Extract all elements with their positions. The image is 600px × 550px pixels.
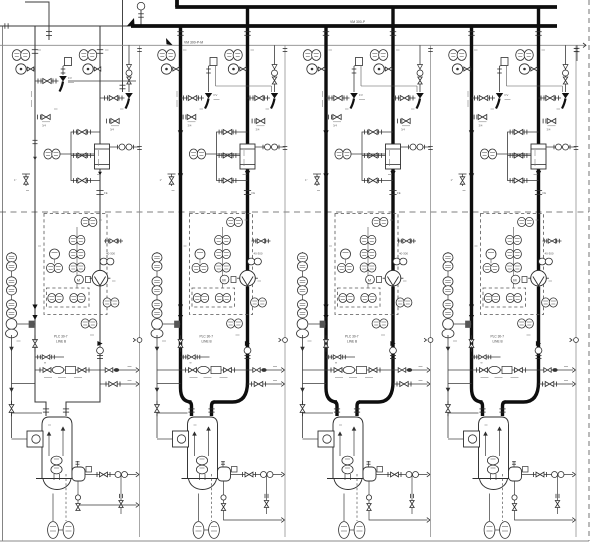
wire pot drain unit 3 — [369, 481, 428, 520]
orifice flanges FE-31 — [389, 190, 396, 192]
svg-text:PLC 30-7: PLC 30-7 — [200, 335, 214, 339]
instrument PI-202 gauge — [228, 64, 238, 74]
flow arrow on discharge riser below cooler unit 4 — [536, 171, 541, 176]
arrow on balance line at boundary unit 2 — [281, 368, 284, 373]
wire pump 4 suction riser (left main) x=472 — [472, 26, 483, 402]
dashed control panel box unit 2 — [190, 214, 253, 315]
wire TI-411 to cooler — [497, 153, 532, 155]
instrument LT-3C stack — [298, 300, 308, 309]
pipe spec label beside discharge riser unit 4 — [534, 150, 536, 156]
instrument LG-2 gauge — [152, 319, 163, 330]
flow element FE-12 (venturi) on discharge riser — [92, 270, 108, 286]
arrow on pot drain unit 1 — [136, 503, 139, 508]
check valve on discharge riser bottom unit 4 — [536, 341, 541, 346]
pipe spec label beside suction riser unit 3 — [322, 91, 324, 97]
instrument PI-202 dual tag — [225, 50, 234, 61]
instrument YL-2 dual tag below box — [227, 319, 235, 328]
flow arrow on discharge riser below cooler unit 3 — [390, 171, 395, 176]
pump impeller stages unit 4 — [487, 456, 498, 465]
wire LG-3 to suction riser — [309, 323, 327, 325]
arrow on seal flush outlet unit 3 — [427, 472, 430, 477]
wire signal line to FV-21 — [208, 66, 210, 92]
pipe spec label beside suction riser unit 4 — [467, 91, 469, 97]
wire main header B2 riser x=177 — [175, 0, 179, 7]
wire motor supply link unit 1 — [12, 438, 28, 440]
wire signal line to FV-22 — [274, 45, 276, 92]
positioner circle on control valve FV-42 — [563, 70, 569, 76]
wire between bottom tags unit 3 — [349, 529, 354, 531]
instrument LS-2A bottom tag — [193, 522, 204, 539]
instrument LS-4A bottom tag — [484, 522, 495, 539]
interlock tag UA-1A — [48, 294, 56, 303]
positioner box on control valve FV-31 — [356, 58, 363, 66]
interlock tag UA-3A — [339, 294, 347, 303]
seal flush orifice box unit 1 — [86, 467, 92, 473]
instrument HS-21 pilot light — [195, 249, 205, 259]
interlock tag UA-4A — [484, 294, 492, 303]
valve on kickback return unit 4 — [542, 382, 544, 387]
bypass valve upper unit 2 — [218, 130, 220, 135]
wire pump bottom outlet unit 3 — [343, 494, 345, 522]
sight glass pair on cooling water outlet unit 3 — [410, 144, 416, 150]
pump P-1 dished bottom — [43, 479, 71, 490]
wire between bottom tags unit 4 — [495, 529, 500, 531]
wire PI-402 to right riser — [530, 68, 539, 70]
bypass valve upper unit 3 — [364, 130, 366, 135]
valve drop at right end of air line — [576, 45, 578, 61]
instrument PI-102 dual tag — [79, 50, 88, 61]
wire TI-311 to cooler — [351, 153, 386, 155]
wire unit boundary line x=140 — [139, 45, 141, 537]
pump P-4 base flange — [473, 478, 516, 480]
bypass valve mid unit 4 — [509, 153, 511, 158]
instrument YL-1 dual tag below box — [81, 319, 89, 328]
pump P-3 motor box — [318, 431, 334, 447]
instrument FT-1 dual tag beside venturi — [103, 298, 111, 307]
wire pump 1 discharge riser (right main) x=100 — [99, 26, 101, 270]
flange pair below header on left riser 1 — [32, 49, 38, 51]
relay M-2 circle — [220, 275, 229, 284]
wire balance line y=370 unit 4 — [448, 369, 573, 371]
pump impeller stages unit 2 — [196, 456, 207, 465]
flow arrows low on suction riser unit 1 — [32, 305, 37, 310]
pipe spec label beside discharge riser unit 1 — [98, 150, 100, 156]
bypass valve upper unit 1 — [73, 130, 75, 135]
flange pair below header on left riser 4 — [468, 31, 474, 33]
pump internal riser left unit 2 — [194, 432, 196, 456]
instrument PI-402 gauge — [519, 64, 529, 74]
svg-text:LINE B: LINE B — [202, 340, 212, 344]
svg-text:3/4: 3/4 — [401, 128, 405, 132]
wire minimum-flow branch unit 4 — [472, 97, 496, 99]
instrument PI-302 gauge — [374, 64, 384, 74]
wire pump 4 discharge riser (right main) x=538 — [537, 7, 540, 270]
wire seal flush outlet unit 4 — [522, 474, 574, 476]
control valve FV-31 actuator — [350, 93, 358, 99]
flow arrows on suction riser unit 4 — [469, 130, 474, 135]
vent assembly T-2 on suction side — [171, 174, 173, 186]
bypass valve mid unit 1 — [73, 153, 75, 158]
svg-text:LINE B: LINE B — [347, 340, 357, 344]
relay M-1 auxiliary contact box — [86, 277, 91, 283]
svg-text:PLC 30-7: PLC 30-7 — [54, 335, 68, 339]
pump P-1 motor circle — [32, 435, 40, 443]
valves on pot drain unit 4 — [512, 495, 517, 500]
instrument FAL-31 dual tag — [360, 249, 368, 258]
wire TI-211 to cooler — [206, 153, 241, 155]
flow arrow on instrument air line — [166, 38, 173, 46]
instrument HS-41 pilot light — [486, 249, 496, 259]
valve on kickback return unit 3 — [396, 382, 398, 387]
instrument FK-40 dual tag (top) — [518, 217, 526, 226]
check valve on discharge riser bottom unit 3 — [390, 341, 395, 346]
instrument FT-4 dual tag beside venturi — [542, 298, 550, 307]
off-page connector on boundary unit 4 — [574, 338, 579, 343]
wire signal line to FV-31 — [353, 66, 355, 92]
root valve on PI-101 tap — [27, 67, 34, 71]
dashed interlock box unit 3 — [338, 288, 381, 307]
interlock tag UA-2A — [193, 294, 201, 303]
block valve on kickback branch unit 4 — [540, 96, 542, 101]
instrument LT-2C stack — [152, 300, 162, 309]
wire cooler bypass loop unit 3 — [362, 132, 393, 181]
wire signal line to FV-42 — [565, 45, 567, 92]
pump centre dashed line unit 2 — [211, 474, 213, 521]
wire suction return into pump unit 4 — [448, 412, 479, 414]
wire cooler bypass loop unit 2 — [217, 132, 248, 181]
wire minimum-flow branch unit 2 — [181, 97, 205, 99]
sight glass pair on cooling water outlet unit 4 — [556, 144, 562, 150]
instrument LG-3 gauge — [297, 319, 308, 330]
instrument PI-201 gauge — [161, 64, 171, 74]
svg-text:VM 300-P-M: VM 300-P-M — [184, 41, 203, 45]
control valve FV-31 body — [351, 99, 355, 109]
instrument LT-2A stack — [152, 253, 162, 262]
instrument LS-1A bottom tag — [48, 522, 59, 539]
ticks on boundary line unit 3 — [428, 48, 433, 50]
pump throat unit 1 — [53, 474, 55, 480]
wire cooling water outlet unit 1 — [110, 146, 140, 148]
instrument LT-3A stack — [298, 253, 308, 262]
wire signal line to FV-12 — [128, 45, 130, 92]
pump P-3 motor circle — [323, 435, 331, 443]
arrow on pot drain unit 4 — [572, 518, 575, 523]
control valve FV-41 body — [496, 99, 500, 109]
flange ticks at left end of suction header — [4, 23, 6, 28]
test connection on discharge riser unit 2 — [252, 240, 271, 242]
flow arrows on suction riser unit 1 — [33, 139, 38, 141]
cooler E-101 shell — [95, 144, 110, 169]
instrument TI-111 dual tag at cooler — [44, 149, 52, 159]
svg-text:VM 300-P: VM 300-P — [350, 20, 366, 24]
valve on balance line beyond riser unit 1 — [105, 368, 113, 373]
positioner box on control valve FV-11 — [65, 58, 72, 66]
instrument HS-31 pilot light — [341, 249, 351, 259]
block valve on kickback branch unit 1 — [104, 96, 106, 101]
flow element FE-32 (venturi) on discharge riser — [385, 270, 401, 286]
root valve on PI-301 tap — [318, 67, 325, 71]
hand valve on FV-32 stem — [418, 65, 423, 70]
valves on pot drain unit 1 — [75, 495, 80, 500]
warmup branch y=357 unit 4 — [472, 356, 501, 358]
strainer train on balance line unit 1 — [39, 368, 41, 373]
vent valve V-26 on suction riser top — [178, 340, 183, 348]
pump internal riser left unit 3 — [339, 432, 341, 456]
wire LG-1 to suction riser — [18, 323, 36, 325]
wire drain line down-left unit 2 — [156, 335, 158, 438]
wire signal crossover FV-31 to FV-32 — [360, 66, 362, 86]
relay M-3 circle — [366, 275, 375, 284]
instrument LT-1C stack — [7, 300, 17, 309]
off-page connector on boundary unit 2 — [283, 338, 288, 343]
pump internal riser left unit 4 — [485, 432, 487, 456]
sight glass pair on cooling water outlet unit 2 — [265, 144, 271, 150]
wire drain line down-left unit 1 — [11, 335, 13, 438]
drain valve V-42 on left riser — [473, 115, 475, 120]
svg-text:1": 1" — [451, 178, 454, 182]
vent valve V-46 on suction riser top — [469, 340, 474, 348]
wire PI-102 to right riser — [93, 68, 100, 70]
wire bypass mid branch unit 3 — [362, 155, 386, 157]
seal flush orifice box unit 3 — [377, 467, 383, 473]
wire plant-wide dashed battery limit y=212 — [0, 211, 589, 213]
miscellaneous tag texture marks unit 1 — [38, 49, 42, 51]
miscellaneous tag texture marks unit 4 — [474, 49, 478, 51]
block valve on minimum-flow branch unit 4 — [474, 96, 476, 101]
arrow on pot drain unit 2 — [281, 518, 284, 523]
pump internal riser right unit 1 — [62, 427, 64, 456]
pump P-3 casing — [333, 417, 363, 478]
off-page connector on boundary unit 1 — [137, 338, 142, 343]
instrument FK-20 dual tag (top) — [227, 217, 235, 226]
wire pump bottom outlet unit 1 — [52, 494, 54, 522]
instrument PI-302 dual tag — [370, 50, 379, 61]
pump P-3 dished bottom — [334, 479, 362, 490]
relay M-4 auxiliary contact box — [522, 277, 527, 283]
dashed interlock box unit 1 — [47, 288, 90, 307]
pump throat unit 3 — [344, 474, 346, 480]
wire seal flush outlet unit 3 — [376, 474, 428, 476]
instrument LT-3B stack — [298, 277, 308, 286]
wire main header B2 (thick) y=7 — [175, 5, 557, 9]
instrument LS-3A bottom tag — [339, 522, 350, 539]
hand valve on FV-12 stem — [127, 65, 132, 70]
control valve FV-11 actuator — [59, 76, 67, 82]
wire seal flush outlet unit 1 — [85, 474, 137, 476]
pump throat unit 2 — [199, 474, 201, 480]
wire instrument column unit 2 — [222, 227, 224, 288]
drain valve V-32 on left riser — [328, 115, 330, 120]
instrument FAL-21 dual tag — [215, 249, 223, 258]
wire gland line y=383.5 unit 2 — [157, 383, 181, 385]
wire pot drain unit 2 — [224, 481, 283, 520]
wire balance line y=370 unit 2 — [157, 369, 282, 371]
wire HS-21 link — [199, 259, 201, 263]
bypass valve mid unit 3 — [364, 153, 366, 158]
instrument PI-301 gauge — [307, 64, 317, 74]
wire bypass mid branch unit 2 — [217, 155, 241, 157]
instrument FK-10 dual tag (top) — [81, 217, 89, 226]
flow arrows on suction riser unit 3 — [323, 130, 328, 135]
svg-text:40-300: 40-300 — [399, 252, 408, 256]
miscellaneous tag texture marks unit 3 — [329, 49, 333, 51]
wire gland line y=383.5 unit 3 — [303, 383, 327, 385]
vent assembly T-4 on suction side — [462, 174, 464, 186]
arrow on kickback return at boundary unit 2 — [281, 382, 284, 387]
block valve on minimum-flow branch unit 3 — [328, 96, 330, 101]
valve on kickback return unit 2 — [251, 382, 253, 387]
seal flush orifice box unit 4 — [523, 467, 529, 473]
root valve on PI-102 tap — [94, 67, 101, 71]
arrow on pot drain unit 3 — [427, 518, 430, 523]
test connection on discharge riser unit 3 — [397, 240, 416, 242]
flow element FE-22 (venturi) on discharge riser — [240, 270, 256, 286]
flange pair on utility line — [120, 84, 126, 86]
arrow on seal flush outlet unit 2 — [281, 472, 284, 477]
wire FT-3 tap — [392, 287, 394, 296]
wire PI-302 to right riser — [384, 68, 393, 70]
gauge valve on LG-3 link — [320, 321, 325, 328]
flow arrows on drain line unit 4 — [446, 347, 451, 352]
wire signal crossover FV-21 to FV-22 — [215, 66, 217, 86]
flange pair below header on right riser 1 — [97, 49, 103, 51]
drain valve V-43 on discharge riser — [542, 119, 544, 124]
flow arrows low on suction riser unit 2 — [178, 305, 183, 310]
instrument LT-4B stack — [443, 277, 453, 286]
positioner circle on control valve FV-32 — [417, 70, 423, 76]
ticks on boundary line unit 1 — [137, 48, 142, 50]
wire cooler bypass loop unit 4 — [508, 132, 539, 181]
wire instrument column unit 3 — [367, 227, 369, 288]
svg-text:M: M — [513, 277, 516, 282]
instrument FT-2 dual tag beside venturi — [251, 298, 259, 307]
interlock tag UA-3B — [361, 294, 369, 303]
drain valve V-23 on discharge riser — [251, 119, 253, 124]
valves on seal flush outlet unit 2 — [242, 472, 244, 477]
instrument HS-11 tag — [47, 263, 55, 272]
flow arrows on drain line unit 2 — [155, 347, 160, 352]
instrument YL-3 dual tag below box — [372, 319, 380, 328]
instrument LS-3B bottom tag — [354, 522, 365, 539]
instrument HS-11 pilot light — [50, 249, 60, 259]
flange pairs on pump nozzles unit 4 — [479, 408, 485, 410]
orifice flanges FE-11 — [96, 190, 103, 192]
control valve FV-32 actuator — [416, 93, 424, 99]
drain valve on drain line unit 3 — [300, 405, 305, 413]
hand valve on FV-42 stem — [563, 65, 568, 70]
cooler E-301 shell — [386, 144, 401, 169]
wire PI-202 to right riser — [239, 68, 248, 70]
positioner box on control valve FV-41 — [501, 58, 508, 66]
instrument HS-41 tag — [483, 263, 491, 272]
wire suction return into pump unit 3 — [303, 412, 334, 414]
seal leak-off stub unit 3 — [411, 475, 413, 515]
wire FT-1 tap — [99, 287, 101, 296]
wire gland line y=383.5 unit 4 — [448, 383, 472, 385]
control valve FV-41 actuator — [496, 93, 503, 99]
relay M-4 circle — [511, 275, 520, 284]
wire signal crossover FV-41 to FV-42 — [506, 66, 508, 86]
wire pump bottom outlet unit 2 — [198, 494, 200, 522]
instrument PI-102 gauge — [83, 64, 93, 74]
warmup branch y=357 unit 3 — [326, 356, 355, 358]
wire cooling water outlet unit 2 — [255, 146, 285, 148]
relay M-2 auxiliary contact box — [231, 277, 236, 283]
relay M-3 auxiliary contact box — [377, 277, 382, 283]
right border dashed line — [588, 0, 590, 541]
strainer train on balance line unit 4 — [476, 368, 478, 373]
seal pot on pump unit 1 — [72, 467, 85, 481]
hand valve on FV-22 stem — [272, 65, 277, 70]
drain valve on drain line unit 4 — [446, 405, 451, 413]
control valve FV-21 actuator — [205, 93, 212, 99]
drain valve V-13 on discharge riser — [106, 119, 108, 124]
flow arrows low on suction riser unit 3 — [323, 305, 328, 310]
pump P-2 motor box — [173, 431, 189, 447]
flow arrows on drain line unit 1 — [9, 347, 14, 352]
arrow on kickback return at boundary unit 4 — [572, 382, 575, 387]
instrument HS-21 tag — [192, 263, 200, 272]
wire kickback branch y=98 to FV-22 — [248, 97, 271, 99]
wire HS-11 link — [54, 259, 56, 263]
instrument FT-3 dual tag beside venturi — [396, 298, 404, 307]
flange pair on inlet stub — [46, 31, 52, 33]
flow arrows on drain line unit 3 — [300, 347, 305, 352]
bypass valve mid unit 2 — [218, 153, 220, 158]
drain valve V-12 on left riser — [37, 115, 39, 120]
wire instrument column unit 4 — [513, 227, 515, 288]
interlock tag UA-4B — [506, 294, 514, 303]
control valve FV-32 body — [417, 99, 421, 109]
dashed control panel box unit 1 — [44, 214, 107, 315]
wire bypass mid branch unit 4 — [508, 155, 532, 157]
svg-text:M: M — [222, 277, 225, 282]
control valve FV-12 actuator — [125, 93, 133, 99]
valves on seal flush outlet unit 1 — [96, 472, 98, 477]
left border line — [2, 26, 4, 541]
flange pairs on pump nozzles unit 1 — [43, 408, 49, 410]
drain valve on drain line unit 2 — [155, 405, 160, 413]
wire unit boundary line x=576 — [575, 45, 577, 537]
svg-text:LINE B: LINE B — [56, 340, 66, 344]
drain valve V-33 on discharge riser — [397, 119, 399, 124]
arrow on balance line at boundary unit 3 — [427, 368, 430, 373]
pump internal riser left unit 1 — [48, 432, 50, 456]
flange pair below header on right riser 2 — [244, 31, 250, 33]
bypass valve lower unit 3 — [364, 178, 366, 183]
wire gland line y=383.5 unit 1 — [12, 383, 36, 385]
pump internal riser right unit 3 — [353, 427, 355, 456]
pump centre dashed line unit 1 — [65, 474, 67, 521]
svg-text:FV: FV — [214, 93, 218, 97]
arrow on kickback return at boundary unit 1 — [136, 382, 139, 387]
orifice flanges FE-41 — [535, 190, 542, 192]
dashed interlock box unit 4 — [483, 288, 526, 307]
pump P-1 casing — [42, 417, 72, 478]
instrument PI-101 dual tag — [12, 50, 21, 61]
instrument LT-4C stack — [443, 300, 453, 309]
relief valve PSV-1 above header — [137, 2, 145, 10]
wire header inlet stub top-left — [25, 2, 49, 40]
wire unit boundary line x=430 — [430, 45, 432, 537]
svg-text:PLC 30-7: PLC 30-7 — [491, 335, 505, 339]
instrument FAL-41 dual tag — [506, 249, 514, 258]
wire motor supply link unit 3 — [303, 438, 319, 440]
wire signal line to FV-11 — [62, 66, 64, 75]
wire minimum-flow branch unit 3 — [326, 97, 350, 99]
dashed interlock box unit 2 — [192, 288, 235, 307]
wire kickback return y=384 unit 1 — [100, 383, 137, 385]
